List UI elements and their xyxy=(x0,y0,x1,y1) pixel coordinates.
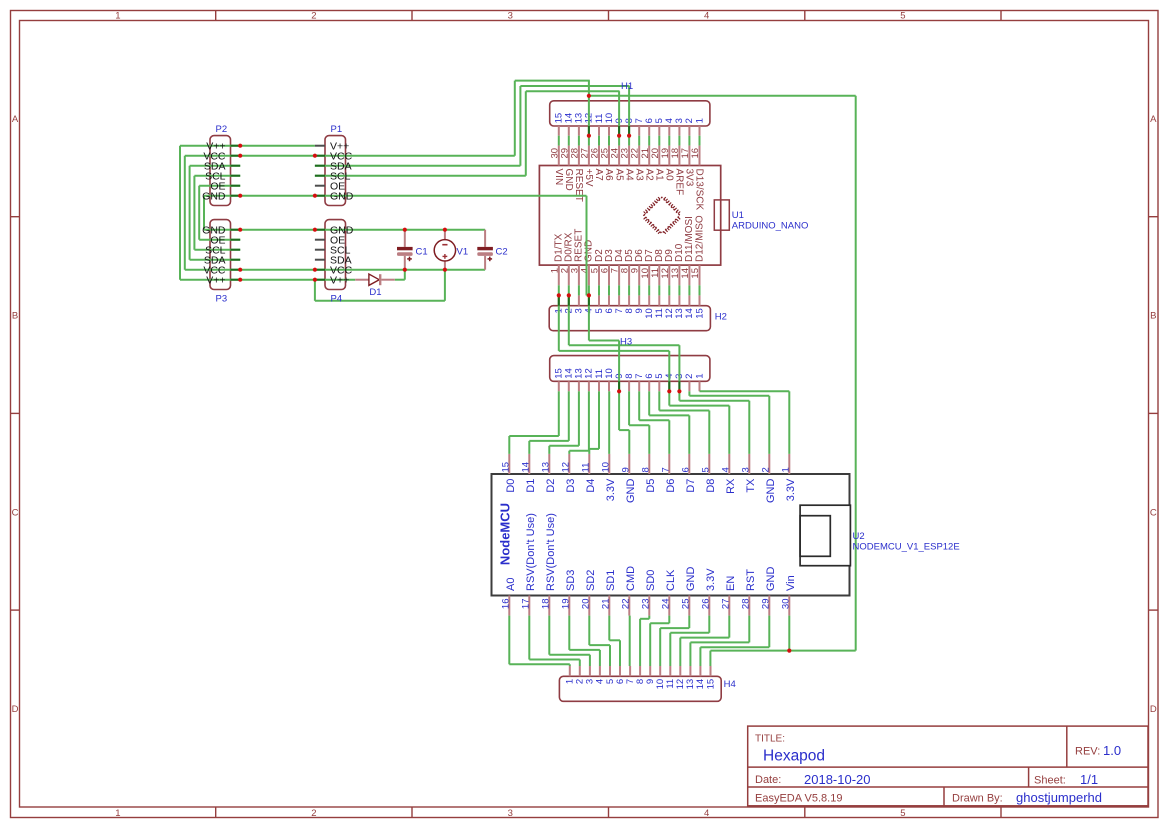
svg-text:ghostjumperhd: ghostjumperhd xyxy=(1016,790,1102,805)
svg-text:SD2: SD2 xyxy=(585,570,597,591)
svg-text:D2: D2 xyxy=(545,479,557,493)
svg-text:13: 13 xyxy=(540,462,551,473)
svg-text:EasyEDA V5.8.19: EasyEDA V5.8.19 xyxy=(755,793,842,805)
svg-text:D7: D7 xyxy=(685,479,697,493)
svg-text:7: 7 xyxy=(660,467,671,472)
svg-text:D5: D5 xyxy=(645,479,657,493)
svg-text:C: C xyxy=(12,507,19,518)
svg-text:A2: A2 xyxy=(644,169,655,182)
svg-text:SD3: SD3 xyxy=(565,570,577,591)
svg-text:4: 4 xyxy=(704,808,709,819)
svg-text:16: 16 xyxy=(500,599,511,610)
svg-text:4: 4 xyxy=(704,11,709,22)
svg-text:D4: D4 xyxy=(585,479,597,493)
svg-text:A3: A3 xyxy=(633,169,644,182)
svg-text:ARDUINO_NANO: ARDUINO_NANO xyxy=(732,220,809,231)
svg-text:Date:: Date: xyxy=(755,774,781,786)
svg-text:VIN: VIN xyxy=(553,169,564,186)
svg-text:3.3V: 3.3V xyxy=(605,478,617,501)
svg-text:29: 29 xyxy=(760,599,771,610)
svg-text:RX: RX xyxy=(725,478,737,494)
svg-text:GND: GND xyxy=(765,479,777,504)
svg-text:25: 25 xyxy=(680,599,691,610)
svg-text:EN: EN xyxy=(725,576,737,591)
svg-text:H2: H2 xyxy=(715,311,727,322)
svg-text:+5V: +5V xyxy=(583,169,594,187)
svg-text:C: C xyxy=(1150,507,1157,518)
svg-text:2: 2 xyxy=(760,467,771,472)
svg-text:C1: C1 xyxy=(416,247,428,258)
svg-text:A7: A7 xyxy=(593,169,604,182)
svg-text:1: 1 xyxy=(115,808,120,819)
svg-text:D6: D6 xyxy=(665,479,677,493)
svg-text:D13/SCK: D13/SCK xyxy=(694,169,705,211)
svg-text:14: 14 xyxy=(520,462,531,473)
svg-text:15: 15 xyxy=(690,268,701,279)
svg-text:3.3V: 3.3V xyxy=(785,478,797,501)
svg-text:28: 28 xyxy=(740,599,751,610)
svg-text:1: 1 xyxy=(694,374,705,379)
svg-text:GND: GND xyxy=(202,190,226,202)
svg-text:D: D xyxy=(1150,704,1157,715)
svg-text:22: 22 xyxy=(620,599,631,610)
svg-text:A5: A5 xyxy=(613,169,624,182)
svg-text:SD0: SD0 xyxy=(645,570,657,591)
svg-text:26: 26 xyxy=(700,599,711,610)
svg-text:A0: A0 xyxy=(664,169,675,182)
svg-text:REV:: REV: xyxy=(1075,746,1100,758)
svg-text:U1: U1 xyxy=(732,210,744,221)
svg-text:NODEMCU_V1_ESP12E: NODEMCU_V1_ESP12E xyxy=(853,541,960,552)
svg-text:GND: GND xyxy=(625,479,637,504)
svg-text:GND: GND xyxy=(685,567,697,592)
svg-text:2: 2 xyxy=(311,808,316,819)
svg-text:GND: GND xyxy=(330,190,354,202)
svg-text:1: 1 xyxy=(694,118,705,123)
svg-text:D0: D0 xyxy=(505,479,517,493)
svg-text:D1: D1 xyxy=(525,479,537,493)
svg-text:D: D xyxy=(12,704,19,715)
svg-text:RSV(Don't Use): RSV(Don't Use) xyxy=(525,513,537,591)
svg-text:P1: P1 xyxy=(331,124,343,135)
svg-text:3: 3 xyxy=(508,808,513,819)
svg-text:CLK: CLK xyxy=(665,569,677,591)
svg-text:A0: A0 xyxy=(505,578,517,591)
svg-text:3V3: 3V3 xyxy=(684,169,695,187)
svg-text:15: 15 xyxy=(500,462,511,473)
svg-text:H3: H3 xyxy=(620,337,632,348)
svg-text:27: 27 xyxy=(720,599,731,610)
svg-text:Drawn By:: Drawn By: xyxy=(952,793,1003,805)
svg-text:D3: D3 xyxy=(565,479,577,493)
svg-text:Sheet:: Sheet: xyxy=(1034,775,1066,787)
svg-text:6: 6 xyxy=(680,467,691,472)
svg-text:Vin: Vin xyxy=(785,575,797,591)
svg-text:H4: H4 xyxy=(724,679,736,690)
svg-text:A: A xyxy=(12,114,19,125)
svg-text:12: 12 xyxy=(560,462,571,473)
svg-text:3: 3 xyxy=(508,11,513,22)
svg-text:2: 2 xyxy=(311,11,316,22)
svg-text:11: 11 xyxy=(580,463,591,473)
svg-text:8: 8 xyxy=(640,467,651,472)
svg-text:5: 5 xyxy=(700,467,711,472)
svg-text:V1: V1 xyxy=(457,247,469,258)
svg-text:16: 16 xyxy=(690,148,701,159)
svg-text:A1: A1 xyxy=(654,169,665,182)
svg-text:17: 17 xyxy=(520,599,531,610)
svg-text:D1: D1 xyxy=(369,287,381,298)
svg-text:1/1: 1/1 xyxy=(1080,772,1098,787)
svg-text:H1: H1 xyxy=(621,81,633,92)
svg-text:3.3V: 3.3V xyxy=(705,568,717,591)
svg-text:D8: D8 xyxy=(705,479,717,493)
svg-text:A4: A4 xyxy=(623,169,634,182)
svg-text:Hexapod: Hexapod xyxy=(763,748,825,765)
svg-text:P2: P2 xyxy=(216,124,228,135)
svg-text:15: 15 xyxy=(694,308,705,319)
svg-text:A6: A6 xyxy=(603,169,614,182)
svg-text:10: 10 xyxy=(600,462,611,473)
svg-text:RST: RST xyxy=(745,569,757,591)
svg-text:15: 15 xyxy=(705,679,716,690)
svg-text:V++: V++ xyxy=(206,274,225,286)
svg-text:C2: C2 xyxy=(496,247,508,258)
svg-text:3: 3 xyxy=(740,467,751,472)
svg-text:9: 9 xyxy=(620,467,631,472)
svg-text:TX: TX xyxy=(745,478,757,493)
svg-text:21: 21 xyxy=(600,599,611,610)
svg-text:5: 5 xyxy=(900,11,905,22)
svg-text:A: A xyxy=(1150,114,1157,125)
svg-text:5: 5 xyxy=(900,808,905,819)
svg-text:19: 19 xyxy=(560,599,571,610)
svg-text:V++: V++ xyxy=(330,274,349,286)
svg-text:18: 18 xyxy=(540,599,551,610)
svg-text:B: B xyxy=(12,311,18,322)
svg-text:P3: P3 xyxy=(216,294,228,305)
svg-text:CMD: CMD xyxy=(625,566,637,591)
svg-text:NodeMCU: NodeMCU xyxy=(498,503,513,565)
svg-text:RESET: RESET xyxy=(573,169,584,202)
svg-text:B: B xyxy=(1150,311,1156,322)
svg-text:20: 20 xyxy=(580,599,591,610)
svg-text:D12/MISO: D12/MISO xyxy=(694,215,705,262)
svg-text:30: 30 xyxy=(780,599,791,610)
svg-text:AREF: AREF xyxy=(674,169,685,196)
svg-text:2018-10-20: 2018-10-20 xyxy=(804,772,871,787)
svg-text:P4: P4 xyxy=(331,294,343,305)
svg-text:24: 24 xyxy=(660,599,671,610)
svg-text:1: 1 xyxy=(780,467,791,472)
svg-text:4: 4 xyxy=(720,467,731,472)
svg-text:1.0: 1.0 xyxy=(1103,743,1121,758)
svg-text:23: 23 xyxy=(640,599,651,610)
svg-text:SD1: SD1 xyxy=(605,570,617,591)
svg-text:RSV(Don't Use): RSV(Don't Use) xyxy=(545,513,557,591)
svg-text:1: 1 xyxy=(115,11,120,22)
svg-text:GND: GND xyxy=(563,169,574,191)
svg-text:GND: GND xyxy=(765,567,777,592)
svg-text:TITLE:: TITLE: xyxy=(755,734,785,745)
